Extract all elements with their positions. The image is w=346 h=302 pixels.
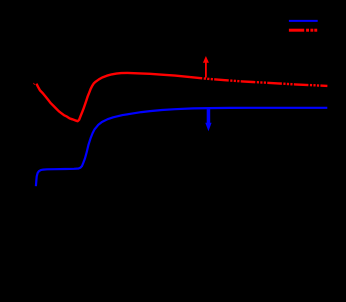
blue down arrow [205, 109, 211, 131]
legend blue solid line [289, 20, 318, 22]
red up arrow [203, 56, 209, 78]
red curve start dot [33, 83, 36, 86]
red curve dash-dot right part [190, 77, 327, 86]
legend red dash-dot line [289, 29, 317, 32]
blue solid curve [36, 108, 327, 186]
red curve solid left part [36, 73, 190, 121]
